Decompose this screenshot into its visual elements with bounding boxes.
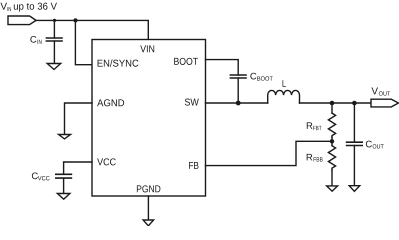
wire FB (206, 141, 333, 165)
label COUT (366, 141, 384, 149)
resistor RFBT (328, 113, 335, 137)
wire CVCC to ground (63, 178, 65, 193)
capacitor CVCC (56, 173, 72, 175)
wire CIN branch (53, 20, 55, 38)
wire SW (206, 102, 268, 104)
label CBOOT (250, 73, 272, 81)
pin EN/SYNC (98, 59, 139, 66)
label CVCC (32, 172, 50, 180)
junction CIN tap (53, 19, 56, 22)
label CIN (30, 36, 41, 44)
wire L to VOUT (300, 102, 372, 104)
resistor RFBB (328, 146, 335, 170)
label VOUT (371, 88, 390, 96)
pin AGND (97, 99, 124, 106)
capacitor CBOOT (230, 74, 246, 76)
wire VIN rail (36, 20, 148, 39)
ground CIN (47, 64, 61, 70)
wire CBOOT to SW (237, 78, 239, 103)
pin VCC (97, 158, 116, 165)
ground CVCC (57, 194, 70, 200)
label RFBT (307, 122, 322, 130)
wire VCC branch (64, 162, 92, 174)
ground PGND (143, 220, 154, 226)
capacitor CIN (46, 37, 62, 39)
wire CIN to ground (53, 41, 55, 64)
pin BOOT (174, 58, 198, 65)
ground COUT (349, 186, 360, 192)
junction RFBT tap (330, 101, 335, 106)
wire RFBB to ground (331, 170, 333, 186)
label RFBB (307, 154, 323, 162)
capacitor COUT (347, 141, 363, 143)
pin PGND (137, 185, 160, 192)
pin VIN (140, 45, 154, 52)
wire COUT branch (353, 103, 355, 142)
wire RFBT to FB junction (331, 137, 333, 145)
wire AGND branch (65, 103, 93, 135)
junction COUT tap (352, 101, 357, 106)
pin SW (185, 99, 199, 106)
wire PGND (147, 196, 149, 220)
wire EN/SYNC branch (75, 20, 92, 64)
inductor L (268, 90, 300, 103)
ground RFBB (327, 186, 338, 191)
junction FB divider (330, 139, 334, 143)
net label VIN up to 36 V (0, 3, 7, 10)
junction EN/SYNC tap (73, 18, 77, 22)
wire COUT to ground (353, 146, 355, 186)
terminal VIN input (8, 16, 36, 25)
wire BOOT branch (206, 60, 239, 75)
wire VOUT rail to RFBT (331, 103, 333, 113)
label L (283, 80, 286, 87)
ground AGND (59, 135, 71, 139)
IC U1 (92, 40, 206, 197)
terminal VOUT output (371, 99, 399, 107)
pin FB (189, 162, 198, 169)
junction BOOT-SW (236, 101, 241, 106)
